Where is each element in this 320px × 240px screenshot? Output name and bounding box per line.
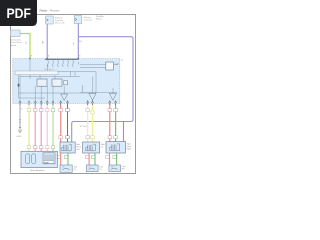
wire lavender RR+ bbox=[40, 105, 42, 151]
wire white faint bbox=[87, 105, 89, 142]
svg-text:Left: Left bbox=[76, 148, 80, 151]
svg-text:Block: Block bbox=[11, 45, 17, 47]
wire red to LF speaker bbox=[60, 105, 62, 142]
svg-text:VT 200: VT 200 bbox=[80, 126, 87, 128]
speaker LF label bbox=[76, 144, 81, 151]
svg-text:Radio Amplifier: Radio Amplifier bbox=[30, 169, 45, 172]
svg-text:Premium: Premium bbox=[50, 9, 60, 12]
purple drop to speaker RF bbox=[123, 122, 125, 142]
wire dark to LF speaker bbox=[67, 105, 69, 142]
amplifier unit box bbox=[21, 151, 57, 167]
inner bus bar (dark top segment) bbox=[45, 58, 79, 60]
top connector box C3 bbox=[74, 16, 82, 24]
fuse F6 bbox=[72, 60, 74, 67]
pin ticks on radio box top bbox=[30, 58, 78, 60]
coil pill 2 bbox=[32, 154, 36, 164]
inline connector on ground wire bbox=[19, 120, 21, 123]
svg-text:Ctr: Ctr bbox=[99, 168, 102, 171]
svg-text:RF: RF bbox=[111, 166, 113, 168]
svg-text:16 15 14 12: 16 15 14 12 bbox=[44, 69, 54, 71]
svg-text:PDF: PDF bbox=[7, 5, 32, 21]
internal relay box K2 bbox=[52, 79, 62, 86]
wire green2 bbox=[52, 105, 54, 151]
fuse F4 bbox=[62, 60, 64, 67]
svg-text:Radio: Radio bbox=[40, 9, 48, 13]
wires speaker C to tweeter bbox=[88, 153, 90, 165]
svg-text:Relay: Relay bbox=[96, 19, 102, 21]
amplifier A2 bbox=[89, 93, 96, 100]
svg-text:Right: Right bbox=[127, 147, 132, 150]
top connector box C2 bbox=[46, 16, 54, 24]
wires speaker LF to tweeter bbox=[60, 153, 62, 165]
internal connector box right bbox=[106, 62, 114, 70]
svg-text:(Fuse 23): (Fuse 23) bbox=[55, 23, 65, 25]
svg-text:Ctr: Ctr bbox=[101, 145, 104, 148]
wire purple 2 branch right, down, across, corners bbox=[72, 37, 133, 142]
amplifier A3 bbox=[109, 93, 116, 100]
svg-text:LF: LF bbox=[63, 167, 65, 169]
svg-text:Battery: Battery bbox=[84, 16, 92, 19]
wire green from C1 bbox=[20, 34, 30, 59]
svg-text:AMP: AMP bbox=[45, 162, 50, 165]
wire labels row1 bbox=[21, 109, 118, 115]
ground wire bbox=[19, 105, 21, 128]
fuse F3 bbox=[57, 60, 59, 67]
tweeter 3 box bbox=[109, 165, 121, 172]
wire green LR- bbox=[34, 105, 36, 151]
fuse F2 bbox=[52, 60, 54, 67]
ground symbol G200 bbox=[19, 127, 20, 128]
wires speaker RF to tweeter bbox=[109, 153, 111, 165]
svg-text:Panel Fuse: Panel Fuse bbox=[11, 42, 23, 44]
wire pink RR- bbox=[46, 105, 48, 151]
schematic outer frame bbox=[11, 15, 136, 174]
svg-text:CT: CT bbox=[89, 166, 91, 168]
svg-text:LG: LG bbox=[26, 41, 28, 44]
coil pill 1 bbox=[26, 154, 30, 164]
svg-text:Run/Acc: Run/Acc bbox=[96, 15, 105, 18]
svg-text:Battery: Battery bbox=[55, 16, 63, 19]
tweeter 1 box bbox=[60, 165, 72, 172]
internal white strip module bbox=[15, 71, 58, 75]
amplifier A1 bbox=[61, 94, 68, 100]
pin ticks bottom bbox=[20, 103, 116, 105]
tweeter 2 box bbox=[86, 165, 98, 172]
wire labels row2 (above amp box) bbox=[27, 136, 117, 149]
svg-text:Junction: Junction bbox=[55, 19, 64, 22]
internal wiring mesh bbox=[19, 59, 118, 104]
speaker RF box bbox=[106, 142, 126, 154]
internal relay box K1 bbox=[37, 79, 47, 86]
fuse F1 bbox=[47, 60, 49, 67]
internal component blob bbox=[18, 84, 20, 87]
svg-text:AMP: AMP bbox=[115, 63, 120, 66]
svg-text:Instrument: Instrument bbox=[11, 39, 22, 42]
speaker C box bbox=[83, 142, 100, 153]
wire purple 2 vertical bbox=[77, 24, 79, 59]
wire green RF door bbox=[115, 105, 117, 142]
speaker LF box bbox=[60, 142, 75, 153]
wire red RF door bbox=[109, 105, 111, 142]
svg-text:Junction: Junction bbox=[84, 19, 93, 22]
connector pin symbols at radio bottom bbox=[19, 101, 117, 103]
radio unit box (dashed, light blue) bbox=[13, 59, 120, 104]
fuse F5 bbox=[67, 60, 69, 67]
wire yellow RF bbox=[92, 105, 94, 142]
top-left connector box C1 bbox=[10, 30, 20, 37]
wire yellow LR+ bbox=[28, 105, 30, 151]
inner connector grid bbox=[43, 153, 55, 164]
tags below speaker row bbox=[57, 156, 117, 159]
internal box K3 bbox=[64, 81, 68, 85]
PDF badge bbox=[0, 0, 37, 26]
wire purple 1 bbox=[46, 24, 48, 59]
